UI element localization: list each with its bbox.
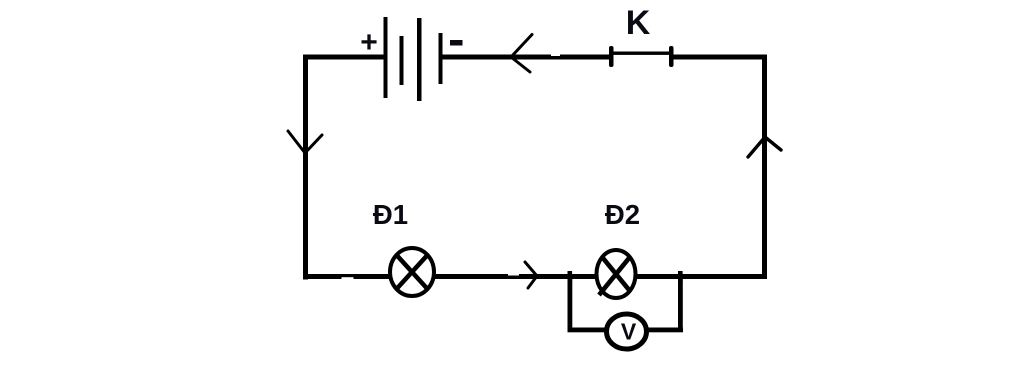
battery plate short - [439,33,443,84]
switch K blade [611,52,671,55]
white notch on bottom-left wire [342,277,354,279]
svg-text:K: K [626,4,651,42]
white notch on top wire [551,50,560,56]
lamp D2 [597,250,636,298]
svg-text:V: V [621,319,637,345]
lamp D1 [390,248,434,296]
svg-text:+: + [360,26,378,59]
wire right vertical [762,55,767,277]
wire bottom middle segment (D1 to D2) [435,274,596,279]
switch K right contact [669,46,674,67]
node junction tick right of D2 [678,271,683,282]
battery plate long inner-right [417,18,422,101]
switch K left contact [609,46,614,67]
white notch on bottom wire [508,272,519,276]
node junction tick left of D2 [568,271,573,282]
arrow right-pointing on bottom wire [525,262,537,288]
wire voltmeter bottom-right [648,328,683,333]
voltmeter V [607,314,647,349]
svg-text:Đ2: Đ2 [605,199,640,230]
wire top segment (switch to top-right corner) [670,55,766,60]
wire voltmeter bottom-left [568,328,606,333]
wire bottom-right segment (D2 to right corner) [636,274,767,279]
arrow up on right wire [748,137,781,157]
arrow left-pointing on top wire [511,35,532,73]
wire left vertical [303,55,308,280]
wire bottom-left segment [303,274,389,279]
wire voltmeter right drop [678,274,683,332]
svg-text:Đ1: Đ1 [373,199,408,230]
battery - label [450,40,463,46]
wire top-right segment (battery to switch) [440,55,612,60]
wire voltmeter left drop [568,274,573,332]
battery plate long + [384,17,388,98]
battery plate short inner-left [400,36,404,85]
wire top-left segment [303,55,386,60]
arrow down on left wire [288,131,322,153]
